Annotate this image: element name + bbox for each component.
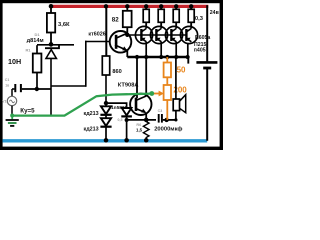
svg-text:3,6К: 3,6К [58,22,70,28]
resistor R7 50 orange [164,57,186,85]
resistor R4b 0,3 [158,4,164,28]
transistor Q1 кт6026 driver [88,31,131,57]
svg-text:0,5: 0,5 [118,118,123,122]
node R1-C1 junction [35,87,39,91]
svg-text:1в: 1в [5,83,9,87]
svg-text:50: 50 [177,66,186,75]
transistor Q2 output [135,23,152,57]
node A (zener / base divider junction) [49,42,54,47]
resistor R4c 0,3 [173,4,179,28]
wire zener column to Q1 base riser [51,85,86,87]
node blue rail junctions [104,138,149,142]
svg-text:10Н: 10Н [8,57,21,66]
wire Q1 base line [85,41,111,43]
potentiometer R8 200 orange [153,85,187,120]
border frame [0,0,223,150]
transistor Q6 КТ908А [118,57,152,120]
svg-text:Ку=5: Ку=5 [20,107,35,114]
resistor R5 860 [102,4,121,103]
resistor R1 10к [8,45,41,89]
svg-text:24в: 24в [210,10,219,16]
speaker [173,57,186,122]
capacitor C3 output 20000мкф [154,109,182,132]
svg-text:0,3: 0,3 [195,16,204,22]
svg-text:82: 82 [112,17,119,24]
wire +24V red power rail [51,5,208,8]
wire emitter bus [127,56,188,59]
svg-text:кт6026: кт6026 [88,31,105,37]
resistor R3 82 [112,4,132,35]
zener diode D1 д814м [27,32,59,116]
transistor Q5 output П605а П215 п405 [180,23,210,57]
resistor R2 3,6К [47,6,70,44]
node bus junctions [135,55,190,59]
svg-text:860: 860 [112,69,121,75]
transistor Q4 output [165,23,182,57]
capacitor C2 filter (top right) [188,5,217,141]
svg-text:R1: R1 [26,48,32,53]
wire emitter junction to output cap [127,119,156,121]
svg-text:кд213: кд213 [84,111,99,117]
signal source V1 [2,89,17,116]
svg-text:R6: R6 [136,123,141,127]
diode D3 кд213 [84,118,112,142]
resistor R4a 0,3 [143,4,149,28]
wire green signal line [10,91,154,117]
svg-text:КТ908А: КТ908А [118,83,139,89]
svg-text:кд213: кд213 [84,127,99,133]
svg-text:D1: D1 [35,32,41,37]
svg-text:С1: С1 [5,78,10,82]
node diode chain top [104,101,108,105]
diode D4 1n5820 [111,105,132,142]
svg-text:д814м: д814м [27,38,44,44]
node red rail start dot [49,4,54,9]
wire to 1n5820 [106,103,127,108]
svg-text:1,5: 1,5 [136,128,143,133]
node Q1 collector / R3 / output row base [125,33,129,37]
svg-text:20000мкф: 20000мкф [154,126,182,133]
wire blue negative rail [3,139,208,142]
ground [6,116,19,126]
svg-text:С3: С3 [158,109,163,113]
resistor R4d 0,3 [188,4,204,28]
diode D2 кд213 [84,103,112,118]
capacitor C1 input [5,78,51,92]
node pot bottom junction [164,118,168,122]
node Q6 emitter junction [144,118,149,123]
svg-text:п405: п405 [194,48,206,54]
svg-text:V1: V1 [2,99,7,103]
transistor Q3 output [150,23,167,57]
wire output row base line [127,34,185,36]
resistor R6 1,5 [136,122,149,143]
wire node A to R1 and to Q1 base branch [37,44,74,46]
